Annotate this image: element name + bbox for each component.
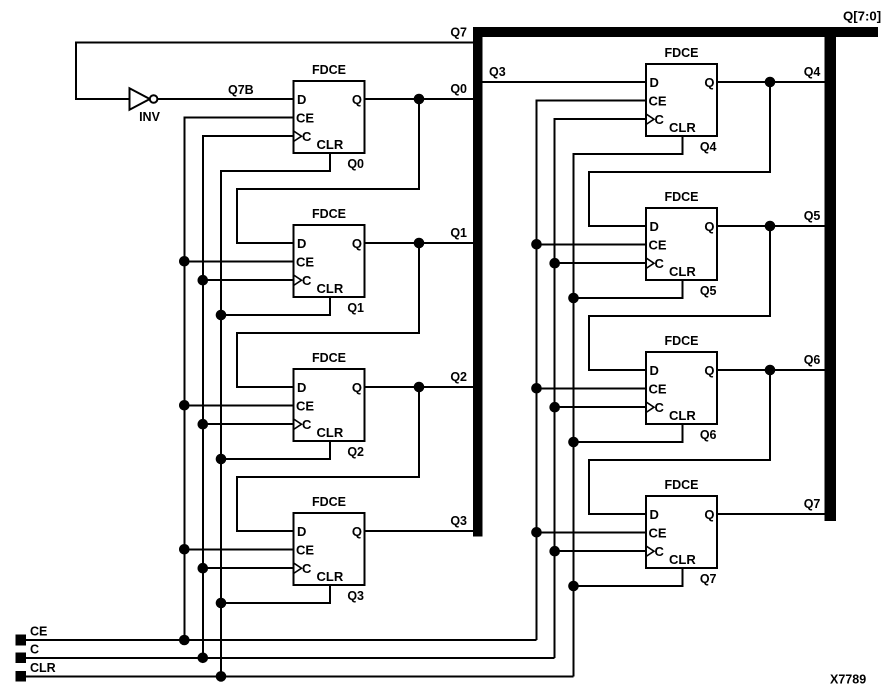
wire Q2 output to left bus bbox=[365, 386, 474, 388]
flip-flop Q2 FDCE body bbox=[294, 369, 365, 441]
input pad CE bbox=[15, 635, 26, 646]
wire Q6 to D of Q7 bbox=[589, 370, 770, 514]
svg-text:Q4: Q4 bbox=[804, 65, 821, 79]
svg-text:D: D bbox=[297, 92, 306, 107]
svg-text:Q: Q bbox=[704, 75, 714, 90]
svg-text:CE: CE bbox=[649, 525, 667, 540]
wire CLR pin route Q7 bbox=[574, 568, 683, 586]
svg-text:C: C bbox=[302, 417, 312, 432]
junction CE trunk right at Q6 bbox=[531, 383, 542, 394]
svg-text:C: C bbox=[30, 642, 39, 656]
svg-text:CLR: CLR bbox=[669, 552, 696, 567]
junction CE trunk at Q1 bbox=[179, 256, 190, 267]
svg-text:Q: Q bbox=[352, 236, 362, 251]
junction Q2 output bbox=[414, 382, 425, 393]
junction CE trunk at Q2 bbox=[179, 400, 190, 411]
svg-text:FDCE: FDCE bbox=[312, 495, 346, 509]
svg-text:Q5: Q5 bbox=[804, 209, 821, 223]
clock wedge pin C (Q2) bbox=[294, 419, 302, 430]
wire CE branch to Q1 bbox=[184, 260, 293, 262]
wire CLR pin route Q3 bbox=[221, 585, 330, 603]
wire Q3 net from bus to D of Q4 bbox=[482, 81, 646, 83]
svg-text:CE: CE bbox=[649, 93, 667, 108]
svg-text:FDCE: FDCE bbox=[664, 190, 698, 204]
junction C trunk right at Q5 bbox=[549, 258, 560, 269]
junction C trunk at Q2 bbox=[198, 419, 209, 430]
svg-text:FDCE: FDCE bbox=[312, 63, 346, 77]
svg-text:CLR: CLR bbox=[317, 425, 344, 440]
wire C branch to Q2 bbox=[203, 423, 294, 425]
svg-text:CLR: CLR bbox=[317, 569, 344, 584]
wire Q5 output to right bus bbox=[717, 225, 825, 227]
svg-text:C: C bbox=[302, 561, 312, 576]
wire CLR pin route Q2 bbox=[221, 441, 330, 459]
wire Q7 output to right bus bbox=[717, 513, 825, 515]
junction CE trunk at CE input line bbox=[179, 635, 190, 646]
svg-text:Q2: Q2 bbox=[347, 445, 364, 459]
wire C trunk left (to C pins Q0-Q3) bbox=[203, 136, 294, 658]
wire CE trunk left (to CE pins Q0-Q3) bbox=[184, 117, 293, 640]
junction C trunk right at Q7 bbox=[549, 546, 560, 557]
wire CE trunk right (to CE pins Q4-Q7) bbox=[537, 100, 647, 640]
svg-text:Q7: Q7 bbox=[450, 26, 467, 40]
junction CLR trunk right at Q7 bbox=[568, 581, 579, 592]
junction CLR trunk at CLR input line bbox=[216, 671, 227, 682]
wire Q6 output to right bus bbox=[717, 369, 825, 371]
svg-text:D: D bbox=[297, 380, 306, 395]
wire Q4 output to right bus bbox=[717, 81, 825, 83]
wire CLR input line bbox=[26, 675, 574, 677]
svg-text:CE: CE bbox=[649, 237, 667, 252]
flip-flop Q0 FDCE body bbox=[294, 81, 365, 153]
bus right vertical (Q4-Q7 taps) bbox=[825, 27, 836, 521]
svg-text:Q2: Q2 bbox=[450, 370, 467, 384]
wire C trunk right (to C pins Q4-Q7) bbox=[555, 119, 646, 658]
svg-text:Q: Q bbox=[704, 219, 714, 234]
junction C trunk at C input line bbox=[198, 653, 209, 664]
junction CE trunk at Q3 bbox=[179, 544, 190, 555]
wire CLR pin route Q5 bbox=[574, 280, 683, 298]
svg-text:Q7B: Q7B bbox=[228, 83, 254, 97]
svg-text:Q0: Q0 bbox=[450, 82, 467, 96]
svg-text:Q6: Q6 bbox=[804, 353, 821, 367]
wire CE input line bbox=[26, 639, 537, 641]
svg-text:C: C bbox=[302, 129, 312, 144]
junction Q0 output bbox=[414, 94, 425, 105]
junction CE trunk right at Q5 bbox=[531, 239, 542, 250]
svg-text:CE: CE bbox=[296, 542, 314, 557]
wire CE branch to Q2 bbox=[184, 404, 293, 406]
junction Q5 output bbox=[765, 221, 776, 232]
junction C trunk right at Q6 bbox=[549, 402, 560, 413]
junction CLR trunk at Q1 bbox=[216, 310, 227, 321]
input pad C bbox=[15, 653, 26, 664]
wire Q0 output to left bus bbox=[365, 98, 474, 100]
wire Q3 output to left bus bbox=[365, 530, 474, 532]
svg-text:FDCE: FDCE bbox=[312, 207, 346, 221]
svg-text:CE: CE bbox=[30, 625, 47, 639]
flip-flop Q3 FDCE body bbox=[294, 513, 365, 585]
clock wedge pin C (Q7) bbox=[646, 546, 654, 557]
svg-text:Q5: Q5 bbox=[700, 284, 717, 298]
svg-text:Q7: Q7 bbox=[804, 497, 821, 511]
wire Q1 to D of Q2 bbox=[237, 243, 419, 387]
svg-text:Q: Q bbox=[704, 507, 714, 522]
svg-text:Q0: Q0 bbox=[347, 157, 364, 171]
svg-text:CLR: CLR bbox=[669, 120, 696, 135]
svg-text:CE: CE bbox=[296, 254, 314, 269]
flip-flop Q4 FDCE body bbox=[646, 64, 717, 136]
clock wedge pin C (Q5) bbox=[646, 258, 654, 269]
wire C branch to Q3 bbox=[203, 567, 294, 569]
inverter INV output bubble bbox=[150, 95, 158, 103]
clock wedge pin C (Q6) bbox=[646, 402, 654, 413]
wire CE branch to Q6 bbox=[537, 387, 647, 389]
svg-text:X7789: X7789 bbox=[830, 673, 866, 687]
svg-text:Q7: Q7 bbox=[700, 572, 717, 586]
svg-text:Q4: Q4 bbox=[700, 140, 717, 154]
inverter INV triangle bbox=[130, 88, 150, 109]
svg-text:Q[7:0]: Q[7:0] bbox=[843, 9, 881, 24]
flip-flop Q5 FDCE body bbox=[646, 208, 717, 280]
junction Q1 output bbox=[414, 238, 425, 249]
wire CLR pin route Q6 bbox=[574, 424, 683, 442]
svg-text:FDCE: FDCE bbox=[664, 334, 698, 348]
clock wedge pin C (Q4) bbox=[646, 114, 654, 125]
svg-text:CE: CE bbox=[296, 398, 314, 413]
junction CLR trunk at Q2 bbox=[216, 454, 227, 465]
svg-text:D: D bbox=[650, 75, 659, 90]
svg-text:D: D bbox=[650, 507, 659, 522]
svg-text:Q1: Q1 bbox=[450, 226, 467, 240]
svg-text:C: C bbox=[655, 544, 665, 559]
junction CLR trunk right at Q5 bbox=[568, 293, 579, 304]
flip-flop Q7 FDCE body bbox=[646, 496, 717, 568]
svg-text:INV: INV bbox=[139, 110, 161, 124]
svg-text:Q: Q bbox=[352, 380, 362, 395]
svg-text:Q: Q bbox=[352, 92, 362, 107]
input pad CLR bbox=[15, 671, 26, 682]
svg-text:CE: CE bbox=[296, 110, 314, 125]
svg-text:CLR: CLR bbox=[669, 408, 696, 423]
bus Q[7:0] top horizontal bbox=[473, 27, 878, 37]
flip-flop Q1 FDCE body bbox=[294, 225, 365, 297]
wire C branch to Q1 bbox=[203, 279, 294, 281]
wire Q2 to D of Q3 bbox=[237, 387, 419, 531]
svg-text:D: D bbox=[650, 363, 659, 378]
wire C branch to Q6 bbox=[555, 406, 646, 408]
flip-flop Q6 FDCE body bbox=[646, 352, 717, 424]
clock wedge pin C (Q1) bbox=[294, 275, 302, 286]
bus left vertical (Q0-Q3 taps) bbox=[473, 27, 482, 537]
svg-text:FDCE: FDCE bbox=[664, 46, 698, 60]
svg-text:CE: CE bbox=[649, 381, 667, 396]
svg-text:D: D bbox=[297, 236, 306, 251]
svg-text:CLR: CLR bbox=[317, 137, 344, 152]
junction Q4 output bbox=[765, 77, 776, 88]
wire CE branch to Q3 bbox=[184, 548, 293, 550]
wire CLR trunk left with Q0 CLR pin route bbox=[221, 153, 330, 676]
wire C branch to Q5 bbox=[555, 262, 646, 264]
wire CE branch to Q7 bbox=[537, 531, 647, 533]
junction CLR trunk at Q3 bbox=[216, 598, 227, 609]
svg-text:Q3: Q3 bbox=[450, 514, 467, 528]
svg-text:Q3: Q3 bbox=[489, 65, 506, 79]
wire Q5 to D of Q6 bbox=[589, 226, 770, 370]
svg-text:CLR: CLR bbox=[30, 661, 56, 675]
junction CE trunk right at Q7 bbox=[531, 527, 542, 538]
wire Q1 output to left bus bbox=[365, 242, 474, 244]
wire C branch to Q7 bbox=[555, 550, 646, 552]
svg-text:Q: Q bbox=[352, 524, 362, 539]
junction C trunk at Q1 bbox=[198, 275, 209, 286]
svg-text:C: C bbox=[655, 112, 665, 127]
svg-text:D: D bbox=[297, 524, 306, 539]
svg-text:FDCE: FDCE bbox=[664, 478, 698, 492]
junction Q6 output bbox=[765, 365, 776, 376]
svg-text:CLR: CLR bbox=[669, 264, 696, 279]
wire Q7B inverter output to D of Q0 bbox=[157, 98, 293, 100]
svg-text:C: C bbox=[302, 273, 312, 288]
wire Q0 to D of Q1 bbox=[237, 99, 419, 243]
junction C trunk at Q3 bbox=[198, 563, 209, 574]
wire CLR pin route Q1 bbox=[221, 297, 330, 315]
wire CE branch to Q5 bbox=[537, 243, 647, 245]
wire CLR trunk right with Q4 CLR pin route bbox=[574, 136, 683, 676]
svg-text:Q1: Q1 bbox=[347, 301, 364, 315]
junction CLR trunk right at Q6 bbox=[568, 437, 579, 448]
svg-text:Q: Q bbox=[704, 363, 714, 378]
svg-text:FDCE: FDCE bbox=[312, 351, 346, 365]
clock wedge pin C (Q3) bbox=[294, 563, 302, 574]
svg-text:C: C bbox=[655, 400, 665, 415]
svg-text:CLR: CLR bbox=[317, 281, 344, 296]
clock wedge pin C (Q0) bbox=[294, 131, 302, 142]
wire C input line bbox=[26, 657, 555, 659]
wire Q4 to D of Q5 bbox=[589, 82, 770, 226]
svg-text:Q6: Q6 bbox=[700, 428, 717, 442]
svg-text:C: C bbox=[655, 256, 665, 271]
svg-text:Q3: Q3 bbox=[347, 589, 364, 603]
wire Q7 feedback from bus to inverter input bbox=[76, 43, 473, 100]
svg-text:D: D bbox=[650, 219, 659, 234]
